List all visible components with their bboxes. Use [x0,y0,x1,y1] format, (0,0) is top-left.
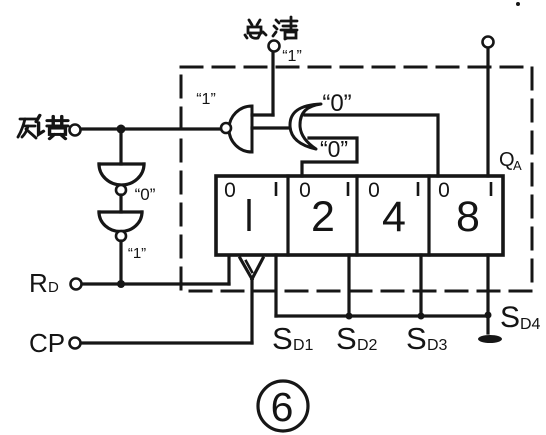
svg-text:0: 0 [224,179,236,202]
svg-text:6: 6 [271,384,294,430]
svg-text:CP: CP [29,328,65,358]
svg-text:“1”: “1” [196,91,216,108]
svg-text:S: S [336,321,357,356]
svg-text:A: A [513,158,522,173]
svg-text:0: 0 [368,179,380,202]
svg-text:S: S [500,301,520,334]
svg-text:“1”: “1” [282,48,302,65]
svg-text:8: 8 [456,193,480,241]
svg-text:S: S [406,321,427,356]
svg-text:R: R [29,268,48,298]
svg-text:“1”: “1” [128,245,146,262]
svg-text:0: 0 [438,179,450,202]
svg-text:S: S [272,321,293,356]
svg-text:D4: D4 [520,316,541,333]
svg-text:D1: D1 [293,337,314,354]
svg-text:2: 2 [311,193,335,241]
svg-text:0: 0 [299,179,311,202]
svg-text:D2: D2 [357,337,378,354]
svg-text:“0”: “0” [320,136,348,162]
svg-text:4: 4 [382,193,406,241]
svg-text:“0”: “0” [135,185,156,204]
svg-text:D: D [48,279,59,296]
svg-text:D3: D3 [427,337,448,354]
svg-text:“0”: “0” [322,90,351,117]
